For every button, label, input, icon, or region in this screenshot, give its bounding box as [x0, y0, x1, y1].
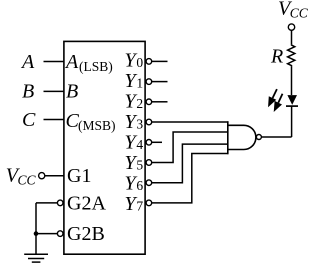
svg-text:B: B — [22, 81, 34, 103]
svg-text:(MSB): (MSB) — [78, 118, 116, 133]
svg-text:CC: CC — [18, 173, 37, 188]
svg-text:1: 1 — [136, 75, 143, 90]
svg-text:3: 3 — [136, 116, 143, 131]
svg-text:G1: G1 — [67, 165, 91, 187]
svg-text:G2B: G2B — [67, 223, 105, 245]
svg-text:4: 4 — [136, 137, 143, 152]
svg-text:5: 5 — [136, 157, 143, 172]
svg-text:A: A — [20, 51, 35, 73]
svg-text:CC: CC — [290, 6, 309, 21]
svg-text:6: 6 — [136, 178, 143, 193]
svg-text:2: 2 — [136, 96, 143, 111]
svg-text:A: A — [64, 51, 79, 73]
svg-text:7: 7 — [136, 198, 143, 213]
svg-text:(LSB): (LSB) — [79, 59, 113, 74]
svg-text:B: B — [66, 80, 78, 102]
svg-text:0: 0 — [136, 55, 143, 70]
svg-text:R: R — [270, 45, 283, 67]
svg-text:G2A: G2A — [67, 192, 106, 214]
svg-text:C: C — [22, 109, 36, 131]
